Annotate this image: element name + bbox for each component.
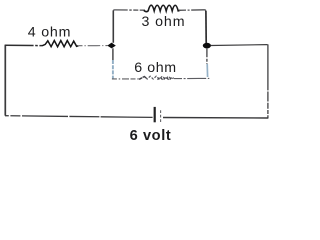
resistor 6 ohm (faint broken zigzag) (139, 76, 174, 79)
wire: node A down (dark then faded blue) (112, 48, 114, 60)
battery: long plate (left) (154, 107, 156, 122)
wire: bottom rail right of battery (163, 117, 268, 120)
wire: parallel top rail, right segment + corner (179, 10, 206, 12)
resistor 4 ohm (42, 41, 79, 47)
node B (right junction, filled ellipse) (203, 43, 211, 49)
wire: node B horizontal out to right side (211, 44, 268, 47)
resistor 6 ohm darker accent left (139, 77, 146, 80)
wire: outer right vertical (267, 44, 269, 118)
wire: bottom rail left of battery (5, 116, 153, 118)
wire: parallel bottom rail left segment (dashed) (112, 78, 139, 80)
node A (left junction, filled diamond) (107, 43, 116, 49)
wire: outer left vertical (4, 45, 6, 115)
svg-text:4 ohm: 4 ohm (28, 24, 71, 40)
battery: short plate (right, broken) (160, 110, 162, 122)
wire: parallel top rail, corner + left segment (113, 10, 145, 11)
wire: node B lower segment (blue faded) to bottom rail (206, 64, 208, 77)
wire: node A up to parallel-branch top rail (112, 11, 114, 43)
resistor 6 ohm darker accent mid (158, 77, 172, 80)
wire: 4 ohm to node A (dash-dot) (79, 45, 108, 47)
svg-text:6 volt: 6 volt (130, 128, 172, 144)
wire: parallel bottom rail right segment (dashed) (174, 77, 209, 79)
wire: parallel right rail down to node B (205, 11, 207, 43)
wire: top-left horizontal to 4 ohm resistor (5, 44, 42, 46)
resistor 3 ohm (rounded humps) (144, 5, 180, 11)
wire: node B down (dark then faded blue) (206, 48, 208, 64)
wire: node A lower segment (blue faded) to bottom rail (112, 60, 114, 79)
svg-text:3 ohm: 3 ohm (142, 14, 186, 30)
svg-text:6 ohm: 6 ohm (134, 60, 176, 76)
